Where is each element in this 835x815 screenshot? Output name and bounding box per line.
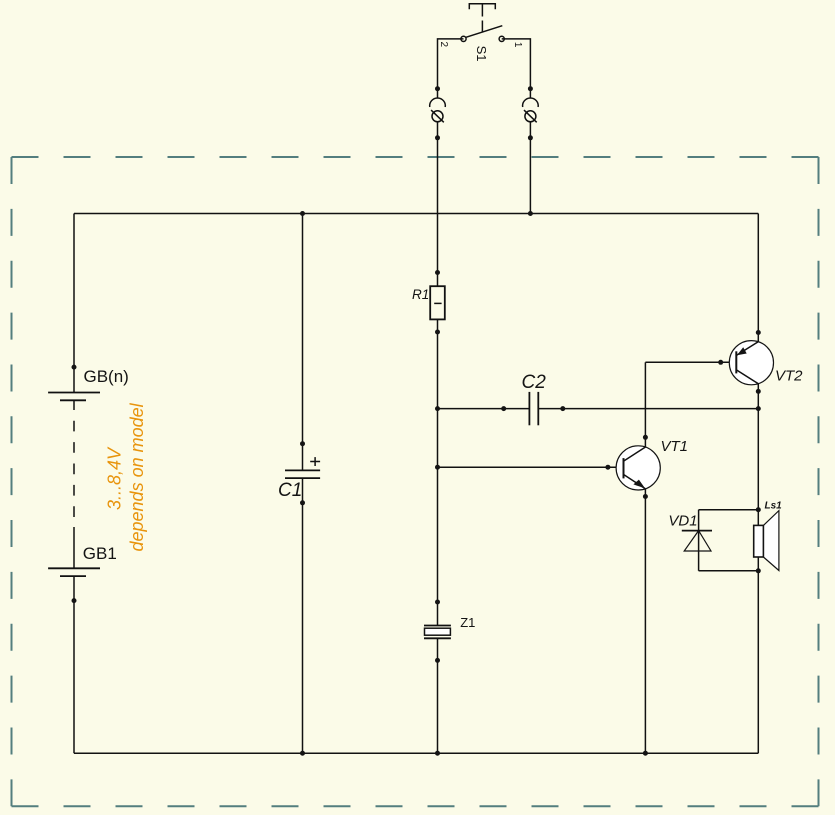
svg-text:depends on model: depends on model <box>127 402 147 551</box>
wire top rail <box>74 213 758 215</box>
battery GB(n) <box>48 393 100 411</box>
wire VT1 emitter down <box>644 489 646 754</box>
diode VD1 <box>682 510 712 571</box>
wire C2 row right <box>538 408 758 410</box>
capacitor C2 <box>529 392 538 425</box>
switch S1 <box>461 4 504 42</box>
svg-text:R1: R1 <box>412 287 429 302</box>
svg-text:GB1: GB1 <box>83 544 117 563</box>
battery GB1 <box>48 568 100 576</box>
plus polarity mark <box>310 457 320 466</box>
svg-text:GB(n): GB(n) <box>84 367 129 386</box>
wire C1 column lower <box>302 478 304 753</box>
wire left column lower <box>73 576 75 753</box>
wire Z1 to bottom rail <box>437 638 439 753</box>
wire VT1 collector to VT2 base <box>645 361 736 363</box>
wire bottom rail <box>74 752 758 754</box>
resistor R1 <box>430 286 445 319</box>
svg-text:Z1: Z1 <box>460 615 475 630</box>
dashed frame border <box>12 157 819 806</box>
connector socket X1 <box>523 98 539 107</box>
wire switch right drop <box>502 39 531 98</box>
wire right connector to rail <box>529 122 531 214</box>
svg-text:C1: C1 <box>278 480 302 501</box>
wire C1 column upper <box>302 214 304 471</box>
wire switch left drop <box>438 39 464 98</box>
svg-text:C2: C2 <box>522 372 547 393</box>
svg-text:2: 2 <box>438 42 449 48</box>
speaker Ls1 <box>754 511 779 571</box>
svg-text:VT2: VT2 <box>775 368 803 385</box>
crystal Z1 <box>424 626 451 639</box>
wire VT2 collector down <box>757 384 759 526</box>
wire R1 to Z1 column <box>437 319 439 625</box>
capacitor C1 <box>285 470 320 478</box>
wire VT1 base row <box>438 466 624 468</box>
svg-text:1: 1 <box>512 42 523 48</box>
transistor VT1 <box>616 446 660 490</box>
wire VD1 loop top <box>699 509 759 511</box>
connector plug X1 <box>524 110 537 122</box>
svg-text:S1: S1 <box>474 46 489 62</box>
wire VT1 collector up <box>644 362 646 447</box>
svg-text:VT1: VT1 <box>661 438 689 455</box>
battery link dashed <box>73 421 75 527</box>
wire left column upper <box>73 214 75 393</box>
connector socket X2 <box>430 98 446 107</box>
connector plug X2 <box>431 110 444 122</box>
wire C2 row left <box>438 408 530 410</box>
wire VD1 loop bottom <box>699 570 759 572</box>
svg-text:VD1: VD1 <box>668 513 697 530</box>
svg-text:3...8,4V: 3...8,4V <box>105 446 125 510</box>
wire speaker to bottom rail <box>757 557 759 753</box>
wire left connector to R1 <box>437 122 439 286</box>
transistor VT2 <box>729 341 773 385</box>
wire VT2 emitter to rail <box>757 214 759 342</box>
svg-text:Ls1: Ls1 <box>765 501 783 512</box>
